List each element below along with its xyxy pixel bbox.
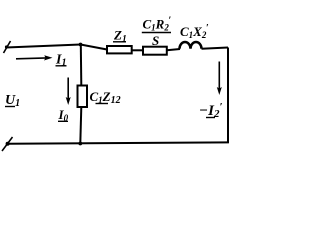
svg-text:C1R2′: C1R2′ (143, 16, 172, 33)
label -I2' (199, 101, 223, 120)
label I1 (55, 53, 67, 69)
label C1Z12 (90, 89, 121, 106)
wire top from node A to Z1 (81, 45, 108, 50)
resistor C1R2'/s (143, 47, 167, 55)
label C1R2'/s (fraction) (142, 16, 172, 49)
node B (bottom junction) (78, 142, 82, 146)
svg-text:C1X2′: C1X2′ (180, 23, 209, 40)
label I0 (58, 107, 69, 123)
wire top from input terminal to node A (6, 45, 81, 48)
node A (top junction) (79, 43, 83, 47)
voltage label U1 (5, 93, 20, 109)
current arrow I1 (16, 55, 53, 60)
wire shunt branch lower (80, 107, 81, 144)
resistor Z1 (107, 46, 132, 53)
wire between Z1 and C1R2'/s resistor (132, 49, 143, 51)
inductor C1X2' (180, 42, 202, 49)
svg-text:S: S (152, 33, 159, 48)
impedance C1Z12 (magnetizing branch) (78, 86, 88, 108)
wire bottom (8, 142, 229, 143)
wire top-right from inductor to corner (202, 48, 229, 49)
wire shunt branch upper (80, 45, 83, 86)
input terminal bottom-left (2, 137, 13, 151)
input terminal top-left (4, 41, 11, 53)
wire between C1R2'/s and inductor C1X2' (167, 49, 180, 50)
label Z1 (113, 28, 127, 45)
current arrow I0 (66, 78, 71, 106)
current arrow -I2' (217, 62, 222, 96)
svg-text:I0: I0 (58, 107, 69, 123)
wire right side vertical (227, 48, 229, 144)
